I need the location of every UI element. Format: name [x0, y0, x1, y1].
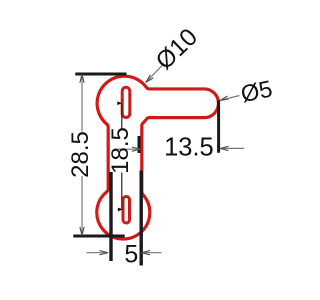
svg-text:Ø10: Ø10: [151, 24, 203, 76]
svg-text:5: 5: [124, 241, 138, 269]
svg-text:13.5: 13.5: [164, 134, 214, 162]
svg-text:28.5: 28.5: [67, 131, 94, 178]
svg-text:18.5: 18.5: [107, 127, 134, 174]
svg-text:Ø5: Ø5: [238, 75, 274, 107]
